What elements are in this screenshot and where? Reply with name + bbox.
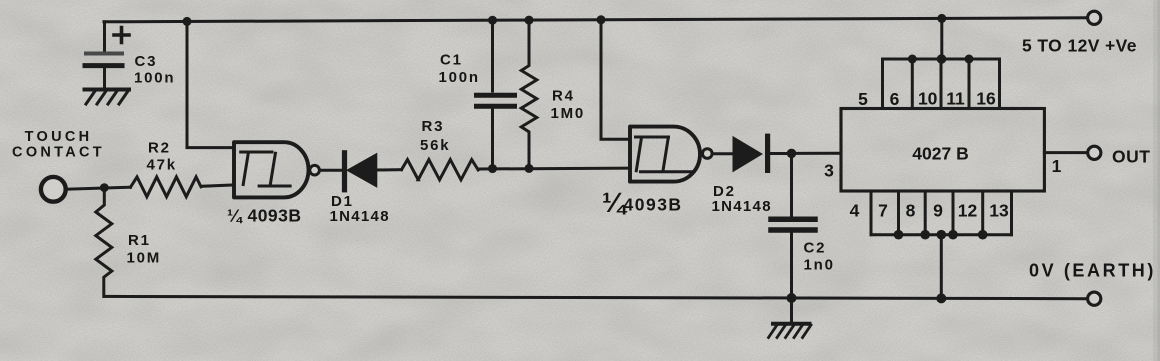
nand gate U1b outline: [630, 127, 700, 182]
svg-text:10: 10: [918, 89, 938, 109]
junction dot C1 on mid rail: [488, 164, 497, 173]
svg-text:10M: 10M: [127, 250, 162, 267]
label 1/4 4093B (gate2): [602, 187, 683, 218]
junction dot node D2/C2/pin3: [787, 149, 797, 159]
junction dot IC supply on rail: [937, 14, 946, 23]
svg-text:56k: 56k: [420, 137, 450, 154]
svg-text:C1: C1: [440, 52, 463, 69]
wire node to IC pin 3: [792, 152, 842, 155]
wire top pin bus: [883, 58, 1000, 61]
labels bottom pins 4 7 8 9 12 13: [850, 201, 1009, 221]
svg-text:5: 5: [858, 89, 868, 109]
label C2 1n0: [804, 240, 835, 274]
svg-text:6: 6: [890, 89, 900, 109]
junction dots on top pin bus: [908, 54, 974, 64]
svg-text:11: 11: [946, 89, 965, 109]
label 4027 B: [912, 144, 968, 164]
diode D2: [734, 136, 768, 170]
output bubble U1b: [703, 149, 713, 159]
terminal +Ve supply: [1088, 11, 1101, 24]
wire gate1 output to D1: [320, 169, 342, 172]
junction dot gate2 upper branch on rail: [597, 15, 606, 24]
wire top supply rail: [104, 18, 1087, 22]
svg-text:1: 1: [1052, 156, 1062, 176]
label D1 1N4148: [330, 193, 390, 225]
label D2 1N4148: [712, 183, 772, 215]
svg-text:4093B: 4093B: [624, 195, 683, 215]
wire C3 branch from rail: [103, 22, 106, 51]
junction dot gate1 upper branch on rail: [183, 17, 192, 26]
label 0V (EARTH): [1029, 261, 1156, 281]
svg-text:OUT: OUT: [1112, 146, 1150, 166]
svg-text:TOUCH: TOUCH: [25, 129, 93, 145]
junction dot R4 on rail: [525, 16, 534, 25]
svg-text:13: 13: [989, 201, 1009, 221]
junction dot touch node: [100, 183, 109, 192]
junction dot R4 on mid rail: [525, 164, 534, 173]
resistor R2: [131, 177, 202, 197]
svg-text:100n: 100n: [439, 69, 480, 86]
nand gate U1a outline: [234, 142, 309, 197]
svg-text:100n: 100n: [134, 70, 175, 87]
ground (C2): [769, 324, 812, 338]
svg-text:1N4148: 1N4148: [330, 208, 390, 225]
svg-text:9: 9: [933, 201, 943, 221]
label pin 3: [824, 160, 834, 180]
label C1 100n: [439, 52, 480, 87]
polarity mark + for C3: [114, 28, 129, 43]
label C3 100n: [134, 53, 175, 87]
capacitor C2: [771, 219, 815, 298]
terminal 0V: [1088, 292, 1101, 305]
svg-text:¼ 4093B: ¼ 4093B: [227, 205, 302, 225]
svg-text:R4: R4: [552, 88, 575, 105]
svg-text:CONTACT: CONTACT: [12, 144, 105, 160]
label OUT: [1112, 146, 1150, 166]
svg-text:R3: R3: [422, 118, 445, 135]
resistor R4: [521, 20, 537, 168]
schmitt hysteresis symbol U1a: [241, 152, 290, 186]
svg-text:1M0: 1M0: [551, 105, 586, 122]
svg-text:16: 16: [976, 89, 996, 109]
svg-text:R2: R2: [148, 140, 171, 157]
wire gate1 upper input branch: [187, 21, 234, 147]
schmitt hysteresis symbol U1b: [636, 137, 695, 172]
labels top pins 5 6 10 11 16: [858, 89, 996, 109]
terminal touch contact: [41, 177, 66, 202]
wire mid rail R3 to gate2 lower input: [478, 167, 630, 171]
junction dot IC ground on bottom rail: [936, 293, 946, 303]
svg-text:R1: R1: [128, 232, 151, 249]
scan edge shading: [1153, 0, 1160, 361]
resistor R1: [96, 188, 112, 297]
wire C2 upper lead: [790, 153, 793, 215]
label pin 1: [1052, 156, 1062, 176]
terminal OUT: [1088, 146, 1101, 159]
diode D1: [345, 153, 377, 190]
svg-text:1N4148: 1N4148: [712, 198, 772, 215]
svg-text:7: 7: [878, 201, 888, 221]
wire IC supply drop from rail: [940, 18, 943, 59]
wire bottom pin bus: [871, 233, 1012, 236]
junction dots on bottom pin bus: [894, 230, 988, 240]
output bubble U1a: [310, 165, 320, 175]
svg-text:12: 12: [958, 201, 978, 221]
wire capacitor C1 upper lead: [491, 20, 494, 91]
junction dot C2 on bottom rail: [787, 293, 797, 303]
svg-text:0V (EARTH): 0V (EARTH): [1029, 261, 1156, 281]
svg-text:C3: C3: [135, 53, 158, 70]
wire IC pin 1 to OUT: [1044, 151, 1087, 154]
junction dot C1 on rail: [488, 16, 497, 25]
svg-text:1n0: 1n0: [804, 257, 835, 274]
wire D1 to R3: [376, 168, 401, 171]
label R1 10M: [127, 232, 162, 267]
wire bottom pin leads 4 7 8 9 12 13: [871, 191, 1012, 235]
svg-text:47k: 47k: [147, 157, 177, 174]
wire gate2 output to D2: [713, 152, 734, 155]
svg-text:4: 4: [850, 201, 860, 221]
wire R2 to gate1 lower input: [201, 185, 234, 186]
wire IC ground drop to bottom rail: [940, 235, 943, 299]
svg-text:5 TO 12V +Ve: 5 TO 12V +Ve: [1022, 36, 1137, 56]
label R2 47k: [147, 140, 177, 174]
wire stub to ground below rail: [790, 298, 793, 323]
wire touch node: [66, 187, 131, 189]
svg-text:4027 B: 4027 B: [912, 144, 968, 164]
svg-text:8: 8: [906, 201, 916, 221]
ground (C3): [85, 90, 130, 105]
svg-text:C2: C2: [804, 240, 827, 257]
label 1/4 4093B (gate1): [227, 205, 302, 225]
resistor R3: [402, 160, 479, 180]
capacitor C3: [85, 54, 122, 88]
capacitor C1: [477, 95, 515, 168]
label TOUCH CONTACT: [12, 129, 105, 161]
wire gate2 upper input branch: [601, 20, 630, 140]
wire D2 to node: [768, 152, 792, 155]
wire bottom rail: [104, 296, 1087, 298]
label 5 TO 12V +Ve: [1022, 36, 1137, 56]
IC U2 4027B box: [841, 109, 1044, 192]
svg-text:3: 3: [824, 160, 834, 180]
label R3 56k: [420, 118, 450, 154]
label R4 1M0: [551, 88, 586, 123]
wire top pin leads 5 6 10 11 16: [883, 59, 1000, 109]
